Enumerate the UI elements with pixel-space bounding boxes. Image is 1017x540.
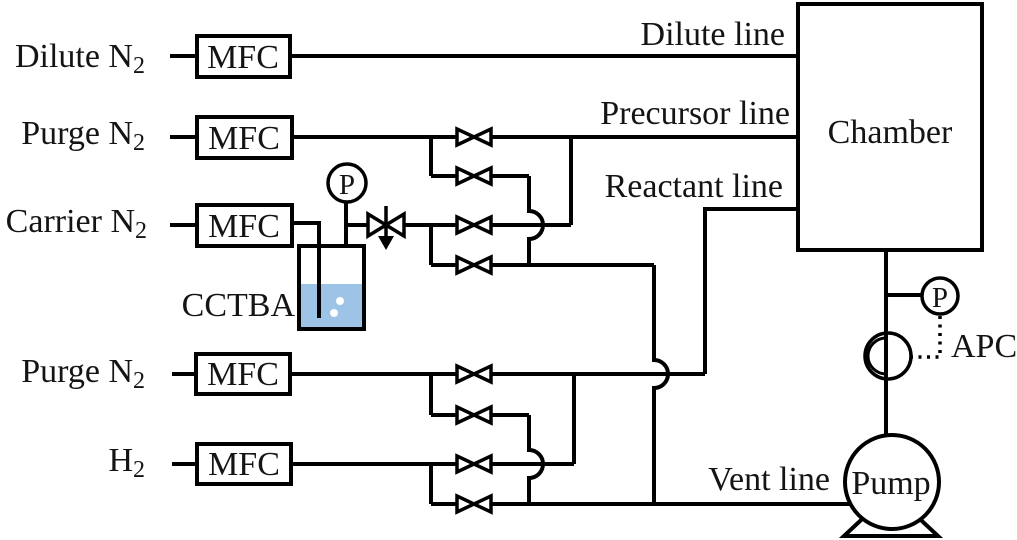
bubble 1 [336, 297, 344, 305]
APC valve inner disc arc [868, 338, 886, 374]
dotted APC control link [912, 316, 940, 357]
label CCTBA [182, 287, 296, 324]
valve V3 [457, 217, 491, 233]
wire gauge P2 connector [886, 293, 922, 297]
wire lower vent branch with hop over H2 outlet [529, 415, 543, 504]
wire branch down to valve V6 [429, 374, 433, 415]
valve V1 [457, 129, 491, 145]
wire vent line to pump [492, 502, 855, 506]
wire bubbler outlet stem [344, 195, 348, 248]
pump [845, 435, 939, 529]
wire carrier inlet stub [170, 223, 197, 227]
wire purge line to valve V1 [292, 135, 456, 139]
needle valve arrow head [378, 236, 394, 250]
wire carrier MFC outlet to dip tube [292, 223, 319, 318]
svg-text:Dilute N2: Dilute N2 [15, 38, 145, 79]
bubbler bottle outline [299, 246, 364, 329]
wire branch down to valve V4 [429, 225, 433, 265]
svg-text:Chamber: Chamber [828, 114, 953, 151]
wire valve V6 outlet [492, 413, 529, 417]
pressure gauge P2 [922, 278, 958, 314]
APC valve body [865, 333, 911, 379]
wire reactant feed line [492, 372, 705, 376]
svg-text:APC: APC [951, 328, 1017, 365]
svg-text:Purge N2: Purge N2 [21, 353, 145, 394]
wire H2 join vertical [572, 374, 576, 464]
wire upper vent drop with hop over reactant feed [654, 265, 668, 504]
wire valve V7 outlet [492, 462, 574, 466]
valve V7 [457, 456, 491, 472]
svg-text:Purge N2: Purge N2 [21, 115, 145, 156]
pump stand [844, 492, 938, 536]
label Dilute N2 [15, 38, 145, 79]
label Purge N2 (upper) [21, 115, 145, 156]
svg-text:Vent line: Vent line [708, 461, 830, 498]
svg-text:MFC: MFC [208, 208, 280, 245]
svg-text:MFC: MFC [207, 356, 279, 393]
bubble 2 [330, 309, 338, 317]
valve V5 [457, 366, 491, 382]
wire valve V2 outlet [492, 174, 529, 178]
wire chamber exhaust to pump [884, 250, 888, 437]
needle valve NV1 [368, 214, 404, 236]
svg-text:P: P [339, 169, 355, 201]
valve V4 [457, 257, 491, 273]
valve V2 [457, 168, 491, 184]
MFC M5 (H2) [197, 444, 291, 484]
wire valve V4 outlet [492, 263, 654, 267]
wire stem to needle valve [346, 223, 368, 227]
net label Reactant line [605, 168, 783, 205]
wire valve V6 feed [431, 413, 456, 417]
wire valve V3 outlet [492, 223, 571, 227]
valve V6 [457, 407, 491, 423]
svg-text:CCTBA: CCTBA [182, 287, 296, 324]
MFC M4 (lower purge) [196, 354, 290, 394]
svg-text:H2: H2 [108, 442, 145, 483]
net label Precursor line [600, 95, 790, 132]
svg-text:Carrier N2: Carrier N2 [6, 203, 147, 244]
label Purge N2 (lower) [21, 353, 145, 394]
wire precursor line to chamber [492, 135, 798, 139]
svg-text:MFC: MFC [208, 120, 280, 157]
pressure gauge P1 [328, 164, 366, 202]
net label Dilute line [641, 16, 785, 53]
svg-text:Pump: Pump [851, 465, 930, 502]
MFC M3 (carrier) [197, 205, 292, 246]
chamber [798, 4, 982, 250]
wire needle valve to valve V3 [404, 223, 456, 227]
MFC M1 (dilute) [197, 36, 290, 77]
wire purge inlet stub [170, 135, 197, 139]
wire H2 inlet stub [172, 462, 197, 466]
svg-text:P: P [932, 282, 948, 314]
wire vent branch with hop over carrier outlet [529, 176, 543, 265]
wire valve V4 feed [431, 263, 456, 267]
bubbler bottle CCTBA liquid [301, 284, 362, 327]
svg-text:MFC: MFC [208, 446, 280, 483]
wire dilute inlet stub [170, 54, 197, 58]
wire dilute line to chamber [290, 54, 798, 58]
valve V8 [457, 496, 491, 512]
wire branch down to valve V8 [429, 464, 433, 504]
wire H2 line to valve V7 [291, 462, 456, 466]
wire branch down to valve V2 [429, 137, 433, 176]
wire lower purge line to valve V5 [290, 372, 456, 376]
wire valve V2 feed [431, 174, 456, 178]
svg-text:Precursor line: Precursor line [600, 95, 790, 132]
wire precursor join vertical [569, 137, 573, 225]
net label Vent line [708, 461, 830, 498]
wire lower purge inlet stub [172, 372, 196, 376]
svg-text:Dilute line: Dilute line [641, 16, 785, 53]
svg-text:MFC: MFC [207, 39, 279, 76]
label H2 [108, 442, 145, 483]
label APC [951, 328, 1017, 365]
svg-text:Reactant line: Reactant line [605, 168, 783, 205]
wire reactant line riser and entry to chamber [705, 209, 798, 374]
MFC M2 (upper purge) [197, 117, 292, 158]
label Carrier N2 [6, 203, 147, 244]
wire valve V8 feed [431, 502, 456, 506]
needle valve arrow stem [384, 206, 388, 238]
